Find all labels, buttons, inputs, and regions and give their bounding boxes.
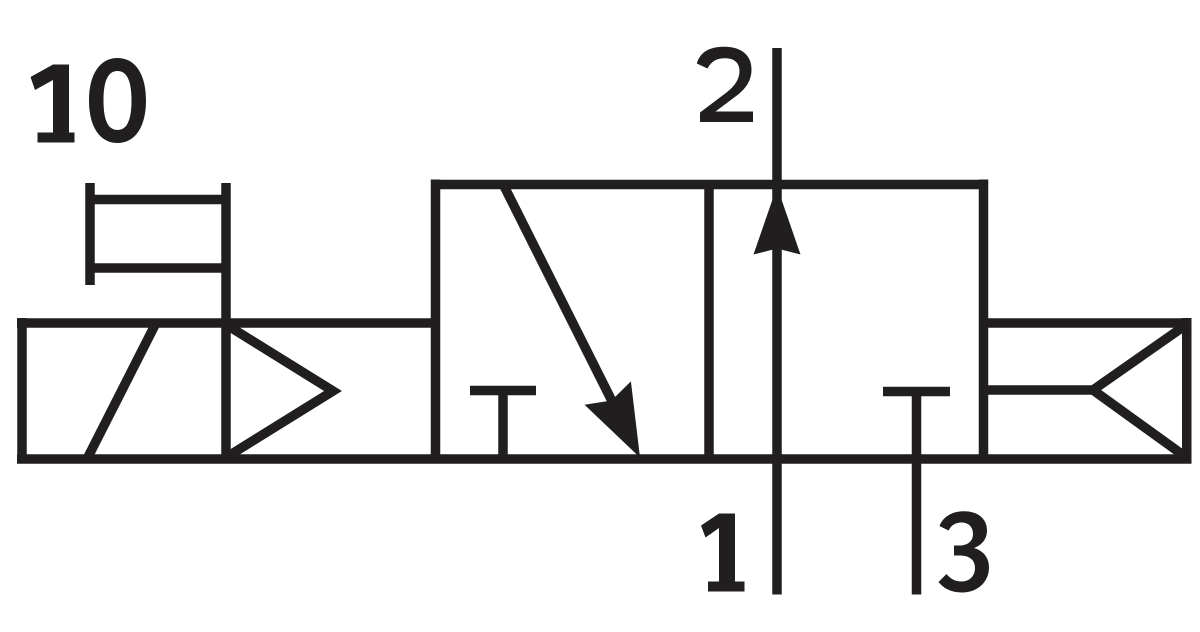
label 10 digit 0	[89, 58, 146, 143]
port 3 line	[912, 392, 922, 595]
port 2 / port 1 line	[772, 48, 782, 595]
flow arrowhead 1 to 2 (right box)	[754, 187, 801, 255]
blocked port 1 tee bar (left box)	[470, 386, 536, 396]
air spring return box right edge	[1182, 318, 1192, 459]
label 1	[701, 514, 745, 592]
solenoid box S1 left edge	[17, 318, 27, 459]
air spring return box top edge	[984, 318, 1192, 328]
solenoid box S1 / pilot divider	[221, 323, 231, 459]
label 10 digit 1	[31, 65, 75, 143]
pilot port 10 riser wire	[221, 183, 231, 323]
blocked port 3 tee bar (right box)	[883, 387, 950, 397]
wire: common bottom edge of valve body and actuators	[17, 454, 1192, 464]
pilot port 10 top bar	[90, 195, 226, 205]
pilot triangle	[230, 327, 333, 455]
air spring pilot line	[984, 385, 1094, 395]
pilot port 10 left cap	[85, 183, 95, 285]
flow arrowhead 2 to 3 (left box)	[585, 381, 641, 457]
pilot port 10 bottom bar	[90, 263, 226, 273]
valve box left edge	[431, 180, 441, 460]
valve box right edge	[979, 180, 989, 460]
label 3	[939, 511, 990, 592]
air spring triangle	[1093, 327, 1183, 455]
solenoid slash	[88, 325, 155, 457]
valve boxes top edge	[436, 180, 984, 190]
blocked port 1 tee stem (left box)	[498, 391, 508, 460]
flow path arrow 2 to 3 shaft (left box)	[504, 186, 622, 421]
label 2	[697, 47, 753, 122]
valve box divider	[704, 185, 714, 460]
solenoid box S1 top edge	[17, 318, 436, 328]
